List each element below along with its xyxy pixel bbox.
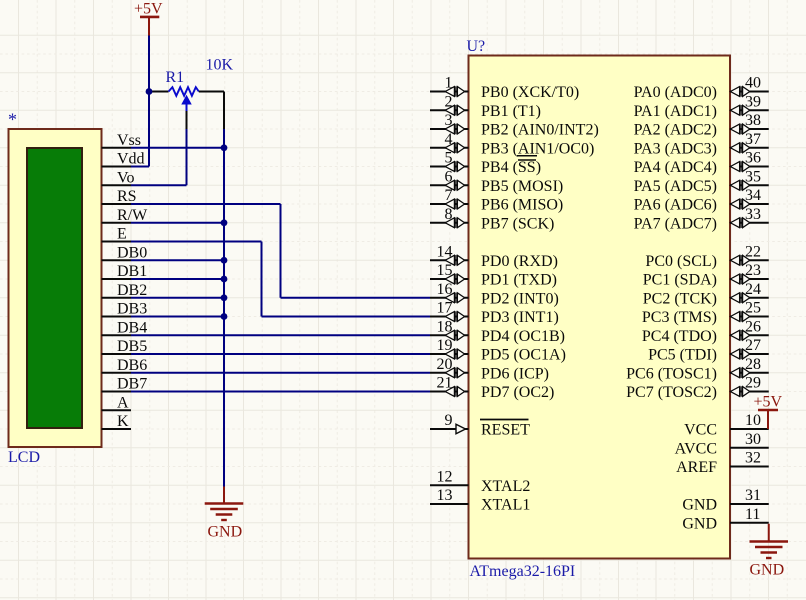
svg-text:27: 27 bbox=[745, 337, 761, 354]
IC pin name RESET bbox=[480, 420, 530, 439]
svg-text:GND: GND bbox=[682, 497, 717, 514]
wire GND vertical bus from R1 right end bbox=[223, 129, 225, 487]
svg-text:35: 35 bbox=[745, 168, 761, 185]
wire DB3 to GND bus bbox=[131, 316, 224, 318]
IC pin 29 (PC7) bbox=[730, 375, 769, 397]
IC pin 38 (PA2) bbox=[730, 112, 769, 134]
junction DB1-GND bbox=[221, 276, 228, 283]
svg-text:33: 33 bbox=[745, 206, 761, 223]
IC pin 19 (PD5) bbox=[430, 337, 469, 359]
IC pin 39 (PA1) bbox=[730, 93, 769, 115]
svg-text:PB6 (MISO): PB6 (MISO) bbox=[481, 197, 563, 214]
resistor R1 wiper pin bbox=[186, 111, 188, 129]
LCD pin Vss bbox=[102, 132, 142, 149]
LCD pin E bbox=[102, 226, 132, 243]
svg-text:VCC: VCC bbox=[684, 422, 717, 439]
svg-text:PC6 (TOSC1): PC6 (TOSC1) bbox=[626, 365, 717, 382]
svg-text:XTAL2: XTAL2 bbox=[481, 478, 530, 495]
svg-text:PC2 (TCK): PC2 (TCK) bbox=[643, 290, 717, 307]
svg-text:10: 10 bbox=[745, 412, 761, 429]
svg-text:PB4 (SS): PB4 (SS) bbox=[481, 159, 541, 176]
svg-text:PB0 (XCK/T0): PB0 (XCK/T0) bbox=[481, 84, 579, 101]
svg-text:GND: GND bbox=[208, 524, 243, 541]
resistor R1 zigzag body bbox=[169, 87, 199, 96]
svg-text:Vdd: Vdd bbox=[117, 151, 145, 168]
svg-text:37: 37 bbox=[745, 131, 761, 148]
svg-text:14: 14 bbox=[437, 243, 453, 260]
svg-text:PD0 (RXD): PD0 (RXD) bbox=[481, 253, 558, 270]
svg-text:34: 34 bbox=[745, 187, 761, 204]
svg-text:11: 11 bbox=[745, 506, 760, 523]
IC pin 36 (PA4) bbox=[730, 150, 769, 172]
LCD module U-LCD body bbox=[9, 129, 102, 447]
IC pin 23 (PC1) bbox=[730, 262, 769, 284]
IC pin 28 (PC6) bbox=[730, 356, 769, 378]
svg-text:22: 22 bbox=[745, 243, 761, 260]
IC pin 37 (PA3) bbox=[730, 131, 769, 153]
svg-text:A: A bbox=[117, 394, 129, 411]
svg-text:RS: RS bbox=[117, 188, 137, 205]
svg-text:PD6 (ICP): PD6 (ICP) bbox=[481, 365, 549, 382]
LCD pin A bbox=[102, 394, 132, 411]
svg-text:36: 36 bbox=[745, 150, 761, 167]
wire RS to MCU PD2 bbox=[131, 204, 430, 298]
svg-text:5: 5 bbox=[445, 150, 453, 167]
svg-text:6: 6 bbox=[445, 168, 453, 185]
svg-text:30: 30 bbox=[745, 431, 761, 448]
svg-text:PA2 (ADC2): PA2 (ADC2) bbox=[634, 122, 717, 139]
IC pin 2 (PB1) bbox=[430, 93, 469, 115]
svg-text:ATmega32-16PI: ATmega32-16PI bbox=[470, 563, 576, 580]
wire DB1 to GND bus bbox=[131, 278, 224, 280]
IC pin 18 (PD4) bbox=[430, 318, 469, 340]
svg-text:3: 3 bbox=[445, 112, 453, 129]
svg-text:21: 21 bbox=[437, 375, 453, 392]
IC pin 13 (XTAL1) bbox=[430, 487, 469, 504]
svg-text:19: 19 bbox=[437, 337, 453, 354]
IC U? ATmega32 body bbox=[469, 56, 731, 559]
svg-text:PD5 (OC1A): PD5 (OC1A) bbox=[481, 347, 566, 364]
LCD pin DB7 bbox=[102, 376, 148, 393]
svg-text:Vo: Vo bbox=[117, 169, 135, 186]
IC pin 16 (PD2) bbox=[430, 281, 469, 303]
svg-text:13: 13 bbox=[437, 487, 453, 504]
svg-text:R/W: R/W bbox=[117, 207, 148, 224]
IC pin 33 (PA7) bbox=[730, 206, 769, 228]
svg-text:PD2 (INT0): PD2 (INT0) bbox=[481, 290, 559, 307]
svg-text:DB5: DB5 bbox=[117, 338, 147, 355]
IC pin 6 (PB5) bbox=[430, 168, 469, 190]
IC pin 34 (PA6) bbox=[730, 187, 769, 209]
IC pin 24 (PC2) bbox=[730, 281, 769, 303]
svg-text:PC5 (TDI): PC5 (TDI) bbox=[648, 347, 717, 364]
wire Vo net: wiper down and left to LCD Vo bbox=[131, 129, 187, 185]
svg-text:Vss: Vss bbox=[117, 132, 141, 149]
IC pin 14 (PD0) bbox=[430, 243, 469, 265]
IC pin 12 (XTAL2) bbox=[430, 468, 469, 485]
svg-text:GND: GND bbox=[750, 562, 785, 579]
svg-text:9: 9 bbox=[445, 412, 453, 429]
LCD pin DB3 bbox=[102, 301, 148, 318]
svg-text:PD3 (INT1): PD3 (INT1) bbox=[481, 309, 559, 326]
svg-text:AVCC: AVCC bbox=[675, 440, 717, 457]
wire DB6 to MCU PD6 bbox=[131, 372, 430, 374]
wire Vdd net: junction down and left to LCD Vdd bbox=[131, 92, 149, 167]
svg-text:XTAL1: XTAL1 bbox=[481, 497, 530, 514]
wire +5V to junction bbox=[148, 36, 150, 92]
IC pin 20 (PD6) bbox=[430, 356, 469, 378]
svg-text:23: 23 bbox=[745, 262, 761, 279]
svg-text:DB7: DB7 bbox=[117, 376, 147, 393]
IC pin 10 (VCC) bbox=[730, 412, 769, 429]
IC pin 21 (PD7) bbox=[430, 375, 469, 397]
svg-text:PA0 (ADC0): PA0 (ADC0) bbox=[634, 84, 717, 101]
svg-text:16: 16 bbox=[437, 281, 453, 298]
IC pin 4 (PB3) bbox=[430, 131, 469, 153]
ground GND (right) bbox=[750, 524, 789, 579]
svg-text:DB0: DB0 bbox=[117, 244, 147, 261]
svg-text:DB2: DB2 bbox=[117, 282, 147, 299]
wire DB5 to MCU PD5 bbox=[131, 353, 430, 355]
LCD pin RS bbox=[102, 188, 137, 205]
svg-text:GND: GND bbox=[682, 515, 717, 532]
svg-text:4: 4 bbox=[445, 131, 453, 148]
svg-text:8: 8 bbox=[445, 206, 453, 223]
svg-text:20: 20 bbox=[437, 356, 453, 373]
LCD pin R/W bbox=[102, 207, 149, 224]
wire Vss to GND bus bbox=[131, 147, 224, 149]
IC pin 27 (PC5) bbox=[730, 337, 769, 359]
svg-text:28: 28 bbox=[745, 356, 761, 373]
svg-text:17: 17 bbox=[437, 300, 453, 317]
svg-text:PC1 (SDA): PC1 (SDA) bbox=[643, 272, 717, 289]
svg-text:DB1: DB1 bbox=[117, 263, 147, 280]
LCD pin DB1 bbox=[102, 263, 148, 280]
junction Vss/GND bbox=[221, 144, 228, 151]
svg-text:DB4: DB4 bbox=[117, 319, 147, 336]
svg-text:PA5 (ADC5): PA5 (ADC5) bbox=[634, 178, 717, 195]
junction +5V / R1 bbox=[146, 88, 153, 95]
svg-text:32: 32 bbox=[745, 450, 761, 467]
IC pin 17 (PD3) bbox=[430, 300, 469, 322]
svg-text:31: 31 bbox=[745, 487, 761, 504]
wire E to MCU PD3 bbox=[131, 242, 430, 317]
svg-text:+5V: +5V bbox=[134, 1, 163, 18]
svg-text:+5V: +5V bbox=[754, 394, 783, 411]
svg-text:PB2 (AIN0/INT2): PB2 (AIN0/INT2) bbox=[481, 122, 599, 139]
wire DB4 to MCU PD4 bbox=[131, 334, 430, 336]
junction DB2-GND bbox=[221, 294, 228, 301]
svg-text:PA4 (ADC4): PA4 (ADC4) bbox=[634, 159, 717, 176]
resistor R1 wiper arrow bbox=[182, 96, 191, 111]
svg-text:PC4 (TDO): PC4 (TDO) bbox=[642, 328, 717, 345]
IC pin 32 (AREF) bbox=[730, 450, 769, 467]
IC pin 3 (PB2) bbox=[430, 112, 469, 134]
IC pin 15 (PD1) bbox=[430, 262, 469, 284]
svg-text:PD1 (TXD): PD1 (TXD) bbox=[481, 272, 557, 289]
junction DB0-GND bbox=[221, 257, 228, 264]
svg-text:RESET: RESET bbox=[481, 422, 530, 439]
IC pin 8 (PB7) bbox=[430, 206, 469, 228]
IC pin 22 (PC0) bbox=[730, 243, 769, 265]
power +5V (right) bbox=[754, 394, 783, 430]
IC pin 1 (PB0) bbox=[430, 75, 469, 97]
svg-text:K: K bbox=[117, 413, 129, 430]
svg-text:U?: U? bbox=[467, 38, 486, 55]
svg-text:29: 29 bbox=[745, 375, 761, 392]
svg-text:24: 24 bbox=[745, 281, 761, 298]
LCD pin DB0 bbox=[102, 244, 148, 261]
LCD pin Vdd bbox=[102, 151, 145, 168]
svg-text:DB3: DB3 bbox=[117, 301, 147, 318]
IC pin 31 (GND) bbox=[730, 487, 769, 504]
svg-text:1: 1 bbox=[445, 75, 453, 92]
IC pin 11 (GND) bbox=[730, 506, 769, 523]
wire DB0 to GND bus bbox=[131, 259, 224, 261]
svg-text:AREF: AREF bbox=[676, 459, 717, 476]
LCD pin Vo bbox=[102, 169, 135, 186]
svg-text:15: 15 bbox=[437, 262, 453, 279]
svg-text:40: 40 bbox=[745, 75, 761, 92]
IC pin 25 (PC3) bbox=[730, 300, 769, 322]
svg-text:PB3 (AIN1/OC0): PB3 (AIN1/OC0) bbox=[481, 140, 594, 157]
IC pin 26 (PC4) bbox=[730, 318, 769, 340]
IC pin 9 (RESET) bbox=[430, 412, 469, 434]
LCD pin DB5 bbox=[102, 338, 148, 355]
svg-text:*: * bbox=[8, 110, 17, 130]
LCD pin DB6 bbox=[102, 357, 148, 374]
svg-text:PA7 (ADC7): PA7 (ADC7) bbox=[634, 215, 717, 232]
svg-text:7: 7 bbox=[445, 187, 453, 204]
svg-text:PA1 (ADC1): PA1 (ADC1) bbox=[634, 103, 717, 120]
IC pin 35 (PA5) bbox=[730, 168, 769, 190]
svg-text:PB5 (MOSI): PB5 (MOSI) bbox=[481, 178, 563, 195]
LCD pin DB2 bbox=[102, 282, 148, 299]
ground GND (left) bbox=[205, 487, 244, 541]
svg-text:PA6 (ADC6): PA6 (ADC6) bbox=[634, 197, 717, 214]
IC pin 30 (AVCC) bbox=[730, 431, 769, 448]
svg-text:R1: R1 bbox=[166, 69, 185, 86]
svg-text:PC3 (TMS): PC3 (TMS) bbox=[642, 309, 717, 326]
wire R/W to GND bus bbox=[131, 222, 224, 224]
LCD pin DB4 bbox=[102, 319, 148, 336]
LCD pin K bbox=[102, 413, 132, 430]
svg-text:39: 39 bbox=[745, 93, 761, 110]
svg-text:PA3 (ADC3): PA3 (ADC3) bbox=[634, 140, 717, 157]
junction DB3-GND bbox=[221, 313, 228, 320]
svg-text:DB6: DB6 bbox=[117, 357, 147, 374]
svg-text:PD4 (OC1B): PD4 (OC1B) bbox=[481, 328, 565, 345]
IC pin 40 (PA0) bbox=[730, 75, 769, 97]
wire DB7 to MCU PD7 bbox=[131, 391, 430, 393]
resistor R1 pin 2 bbox=[199, 92, 224, 130]
wire DB2 to GND bus bbox=[131, 297, 224, 299]
IC pin 5 (PB4) bbox=[430, 150, 469, 172]
svg-text:PC7 (TOSC2): PC7 (TOSC2) bbox=[626, 384, 717, 401]
IC pin name PB4 (SS) bbox=[481, 159, 541, 176]
svg-text:18: 18 bbox=[437, 318, 453, 335]
svg-text:E: E bbox=[117, 226, 127, 243]
power +5V (left) bbox=[134, 1, 163, 36]
IC pin name PB3 (AIN1/OC0) bbox=[481, 140, 594, 157]
svg-text:25: 25 bbox=[745, 300, 761, 317]
junction R/W-GND bbox=[221, 219, 228, 226]
svg-text:38: 38 bbox=[745, 112, 761, 129]
svg-text:PB7 (SCK): PB7 (SCK) bbox=[481, 215, 554, 232]
svg-text:12: 12 bbox=[437, 468, 453, 485]
IC pin 7 (PB6) bbox=[430, 187, 469, 209]
svg-text:2: 2 bbox=[445, 93, 453, 110]
svg-text:26: 26 bbox=[745, 318, 761, 335]
svg-text:PD7 (OC2): PD7 (OC2) bbox=[481, 384, 554, 401]
svg-text:PB1 (T1): PB1 (T1) bbox=[481, 103, 541, 120]
resistor R1 pin 1 bbox=[151, 91, 169, 93]
svg-text:PC0 (SCL): PC0 (SCL) bbox=[645, 253, 717, 270]
svg-text:10K: 10K bbox=[206, 57, 234, 74]
svg-text:LCD: LCD bbox=[8, 449, 40, 466]
